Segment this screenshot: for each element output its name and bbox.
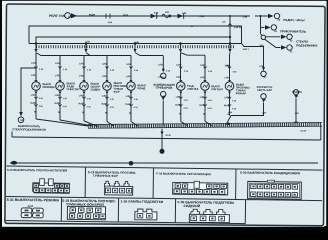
svg-text:ТУМАННЫХ ФАР: ТУМАННЫХ ФАР (93, 174, 118, 178)
svg-text:L/W: L/W (295, 113, 299, 115)
svg-text:L/RU: L/RU (176, 97, 182, 99)
svg-text:L/RU: L/RU (225, 77, 231, 79)
svg-text:L/RU: L/RU (176, 65, 182, 67)
svg-text:ФОНАР: ФОНАР (236, 91, 247, 95)
svg-text:РЕЖИМА: РЕЖИМА (42, 85, 54, 89)
svg-text:RU/B: RU/B (125, 104, 131, 106)
svg-text:RU/B: RU/B (89, 14, 95, 17)
svg-text:L/RU: L/RU (31, 95, 37, 97)
svg-text:L/RU: L/RU (200, 97, 206, 99)
svg-text:RU/B: RU/B (175, 105, 181, 107)
svg-text:ФАР: ФАР (113, 90, 119, 94)
svg-text:RU/B: RU/B (54, 103, 60, 105)
svg-text:L/RU: L/RU (31, 75, 37, 77)
svg-text:СИДЕНИЙ: СИДЕНИЙ (183, 204, 200, 208)
svg-text:F-16 ВЫКЛЮЧАТЕЛЬ СИГНАЛИЗАЦИИ: F-16 ВЫКЛЮЧАТЕЛЬ СИГНАЛИЗАЦИИ (156, 172, 210, 177)
svg-text:L/RU: L/RU (102, 96, 108, 98)
svg-text:L/W: L/W (228, 112, 232, 114)
svg-text:L/RU: L/RU (176, 77, 182, 79)
svg-text:RU/L: RU/L (123, 14, 129, 17)
svg-text:L/RU: L/RU (224, 97, 230, 99)
svg-text:ОЧИСТИТ: ОЧИСТИТ (66, 87, 80, 91)
svg-text:S-31 ВЫКЛЮЧАТЕЛЬ РЕЖИМА: S-31 ВЫКЛЮЧАТЕЛЬ РЕЖИМА (7, 198, 60, 203)
svg-text:L/RU: L/RU (102, 76, 108, 78)
svg-text:L/W: L/W (262, 112, 266, 114)
svg-text:L/RU: L/RU (126, 64, 132, 66)
svg-text:3-05 W: 3-05 W (234, 27, 242, 29)
svg-text:L/RU: L/RU (55, 95, 61, 97)
svg-text:L/RU: L/RU (79, 63, 85, 65)
svg-text:ТУМАННЫХ ФОНАРЕЙ: ТУМАННЫХ ФОНАРЕЙ (66, 202, 104, 206)
svg-text:L/RU: L/RU (55, 63, 61, 65)
svg-text:СВЕТКА: СВЕТКА (187, 87, 198, 91)
svg-text:ПОДЪЕМНИКИ: ПОДЪЕМНИКИ (296, 43, 317, 47)
svg-text:S-05 ВЫКЛЮЧАТЕЛЬ КОНДИЦИОНЕРА: S-05 ВЫКЛЮЧАТЕЛЬ КОНДИЦИОНЕРА (240, 171, 301, 176)
svg-text:L/RU: L/RU (55, 75, 61, 77)
svg-text:РАДИО: РАДИО (292, 90, 302, 94)
svg-text:СВЕТА ФАР: СВЕТА ФАР (257, 88, 273, 92)
svg-text:РЕЛЕ TNS: РЕЛЕ TNS (49, 14, 65, 18)
svg-text:0.5 W: 0.5 W (300, 131, 307, 133)
svg-text:L/RU: L/RU (126, 96, 132, 98)
svg-text:РАДИО, ЧАСЫ: РАДИО, ЧАСЫ (283, 18, 304, 22)
svg-text:0.5 B: 0.5 B (165, 135, 171, 137)
svg-text:30A: 30A (165, 11, 169, 14)
svg-text:СТЕКЛОПОДЪЕМНИКОВ: СТЕКЛОПОДЪЕМНИКОВ (12, 127, 46, 131)
svg-text:СИДЕН: СИДЕН (90, 87, 100, 91)
svg-text:КОНД: КОНД (137, 86, 145, 90)
svg-text:1-16 ЛАМПЫ ПОДСВЕТКИ: 1-16 ЛАМПЫ ПОДСВЕТКИ (121, 199, 164, 204)
svg-text:ПРИКУРИВАТЕЛЬ: ПРИКУРИВАТЕЛЬ (280, 29, 306, 33)
svg-text:RU/B: RU/B (224, 105, 230, 107)
svg-text:ПРИБОРОВ: ПРИБОРОВ (156, 86, 173, 90)
svg-text:СИГНАЛ: СИГНАЛ (211, 87, 223, 91)
svg-text:L/RU: L/RU (79, 95, 85, 97)
svg-text:L/RU: L/RU (79, 76, 85, 78)
svg-text:L/RU: L/RU (200, 65, 206, 67)
svg-text:RU/B: RU/B (199, 105, 205, 107)
svg-text:АОА: АОА (28, 204, 34, 208)
svg-text:RU/B: RU/B (30, 103, 36, 105)
svg-text:L/W: L/W (243, 16, 248, 19)
svg-text:L/W: L/W (200, 15, 205, 18)
svg-text:L/RU: L/RU (102, 64, 108, 66)
svg-text:L/RU: L/RU (31, 63, 37, 65)
svg-text:L/RU: L/RU (158, 64, 164, 66)
svg-text:L/RU: L/RU (126, 76, 132, 78)
svg-text:L/RU: L/RU (200, 77, 206, 79)
svg-text:RU/B: RU/B (101, 104, 107, 106)
svg-text:3-05 Y: 3-05 Y (243, 49, 250, 51)
svg-text:RU/B: RU/B (78, 103, 84, 105)
svg-text:30A: 30A (260, 44, 264, 47)
svg-text:S-16 ВЫКЛЮЧАТЕЛЬ СТЕКЛООЧИСТИТ: S-16 ВЫКЛЮЧАТЕЛЬ СТЕКЛООЧИСТИТЕЛЕЙ (7, 168, 67, 173)
